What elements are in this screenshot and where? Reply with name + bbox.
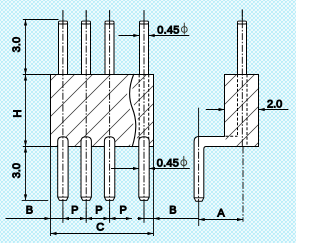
- dimension line (right part): [137, 218, 198, 220]
- svg-text:P: P: [71, 205, 78, 217]
- arrows on left dimension line: [24, 20, 27, 201]
- C extension line left: [50, 147, 52, 237]
- centerline pin 2: [85, 10, 87, 223]
- label 0.45phi (bottom): [157, 156, 187, 170]
- lead bottom cap joint: [194, 197, 204, 199]
- pin 1 top shaft: [59, 21, 68, 74]
- left arrow line: [119, 35, 140, 37]
- pin 1 bottom tail with dome: [58, 137, 68, 201]
- pin 4 top shaft: [140, 21, 149, 74]
- svg-text:P: P: [95, 205, 102, 217]
- dimension line (left part): [6, 218, 132, 220]
- svg-text:0.45: 0.45: [157, 24, 179, 36]
- svg-text:H: H: [12, 110, 24, 118]
- extension line body bottom: [23, 146, 51, 148]
- extension line body top: [23, 74, 51, 76]
- label 0.45phi (top): [157, 23, 187, 37]
- pin 4 hidden edges inside body (dashed): [139, 74, 149, 146]
- body rect stroke on top (side): [225, 75, 259, 147]
- svg-text:C: C: [96, 222, 104, 234]
- lead centerline / extension (vertical at lead center): [198, 108, 200, 226]
- side pin centerline (dash-dot): [241, 10, 244, 222]
- pin centerlines (dash-dot): [63, 10, 144, 223]
- side pin hidden edges inside body (dashed): [225, 74, 247, 146]
- body outline (front view, hatched): [51, 75, 154, 147]
- centerline pin 3: [109, 10, 111, 223]
- svg-text:3.0: 3.0: [11, 163, 23, 178]
- pin 2 bottom tail with dome: [81, 137, 91, 201]
- svg-text:3.0: 3.0: [11, 37, 23, 52]
- svg-text:A: A: [217, 207, 225, 219]
- svg-text:B: B: [26, 205, 33, 217]
- svg-text:P: P: [120, 205, 127, 217]
- extension line pin top: [23, 19, 59, 21]
- pin 2 top shaft: [82, 21, 91, 74]
- arrows on B/P chain: [45, 217, 160, 220]
- hidden arm top edge inside body: [225, 135, 237, 137]
- vertical dimension line: [25, 20, 27, 201]
- centerline pin 4: [143, 10, 145, 223]
- pin 3 top shaft: [105, 21, 114, 74]
- body rect stroke on top: [51, 75, 154, 147]
- svg-text:0.45: 0.45: [157, 158, 179, 170]
- side pin top shaft: [238, 21, 247, 74]
- C extension line right: [153, 147, 155, 237]
- right-angle lead (bent pin), L shape: [194, 137, 226, 202]
- pin 4 bottom tail with dome: [139, 137, 149, 201]
- body outline (side view, hatched): [225, 75, 259, 147]
- centerline pin 1: [62, 10, 64, 223]
- solid tick extensions at pin centerlines (dimension ticks): [63, 10, 242, 223]
- svg-text:2.0: 2.0: [267, 98, 282, 110]
- svg-text:B: B: [169, 205, 176, 217]
- break wave line in body: [130, 74, 136, 147]
- extension line pin bottom: [22, 199, 49, 201]
- pin 3 bottom tail with dome: [104, 137, 114, 201]
- right arrow line / underline: [149, 35, 190, 37]
